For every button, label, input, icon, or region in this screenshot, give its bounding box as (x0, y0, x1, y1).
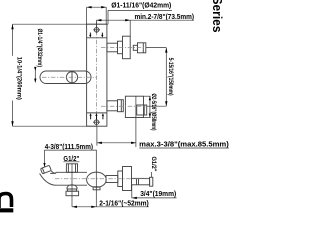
dimension Ø42: line and arrows (87, 6, 107, 24)
svg-text:Ø1-1/4"(Ø32mm): Ø1-1/4"(Ø32mm) (36, 29, 43, 68)
escutcheon centerline (dashed vertical) (96, 22, 98, 126)
svg-text:Ø2-5/16"(Ø58mm): Ø2-5/16"(Ø58mm) (150, 94, 157, 131)
upper union centerline (101, 47, 146, 49)
upper wall arrows (89, 33, 103, 38)
svg-text:10-1/4"(260mm): 10-1/4"(260mm) (16, 57, 23, 100)
lower supply union: pipe (107, 101, 118, 111)
lower union nut (118, 100, 124, 112)
top mounting screw (93, 26, 100, 33)
handle axis vertical (71, 71, 73, 83)
top outlet port G1/2 (66, 164, 77, 173)
upper union flange (123, 36, 131, 59)
escutcheon plate (top view) (87, 24, 107, 126)
lower elbow block (125, 96, 143, 117)
stub end cap (150, 177, 153, 186)
wall flange B (123, 167, 132, 191)
upper union nut (118, 41, 123, 54)
eccentric stub pipe (132, 178, 150, 184)
escutcheon upper inner edge (87, 37, 107, 39)
svg-text:2-1/16"(~52mm): 2-1/16"(~52mm) (99, 198, 149, 207)
svg-text:G1/2": G1/2" (150, 157, 157, 172)
wall flange A (118, 171, 123, 187)
upper union neck (133, 45, 137, 50)
dimension Ø32 arrows (34, 67, 36, 83)
lower outlet axis (135, 96, 137, 147)
bottom outlet knob (66, 185, 79, 196)
dimension 150mm: vertical line (146, 48, 168, 107)
lower union centerline (101, 105, 147, 107)
dimension min.2-7/8 line (96, 19, 194, 36)
svg-text:min.2-7/8"(73.5mm): min.2-7/8"(73.5mm) (135, 12, 195, 21)
lever handle (side view): tip cap (41, 165, 52, 174)
dimension max.85.5: line (97, 126, 136, 145)
lower outlet socket (137, 105, 147, 115)
dimension 260mm: vertical line (11, 24, 108, 126)
svg-text:Series: Series (210, 0, 224, 33)
ball bottom stub (93, 187, 100, 190)
lever handle (top view, capsule) (40, 71, 91, 84)
bottom mounting screw (93, 119, 100, 126)
lever neck curves into body barrel (40, 171, 87, 186)
dimension 2-1/16 line (72, 206, 149, 208)
handle cartridge circle (66, 72, 77, 83)
svg-text:Ø1-11/16"(Ø42mm): Ø1-11/16"(Ø42mm) (111, 1, 172, 10)
svg-text:max.3-3/8"(max.85.5mm): max.3-3/8"(max.85.5mm) (139, 139, 229, 148)
dimension Ø58: vertical line (144, 96, 152, 117)
escutcheon lower inner edge (87, 112, 107, 114)
svg-text:3/4"(19mm): 3/4"(19mm) (140, 189, 177, 198)
port axis vertical (71, 164, 73, 207)
logo glyph fragment (bottom-left) (0, 194, 12, 209)
barrel left step (55, 172, 57, 173)
right connector pipe (106, 176, 118, 183)
upper union end block (138, 43, 146, 53)
upper supply union: pipe (107, 43, 118, 52)
handle centerline (42, 76, 97, 78)
lower wall arrows (90, 113, 105, 119)
mixer ball body (87, 172, 107, 187)
svg-text:5-15/16"(150mm): 5-15/16"(150mm) (167, 58, 174, 96)
svg-text:4-3/8"(111.5mm): 4-3/8"(111.5mm) (45, 142, 94, 151)
body centerline (55, 178, 150, 180)
